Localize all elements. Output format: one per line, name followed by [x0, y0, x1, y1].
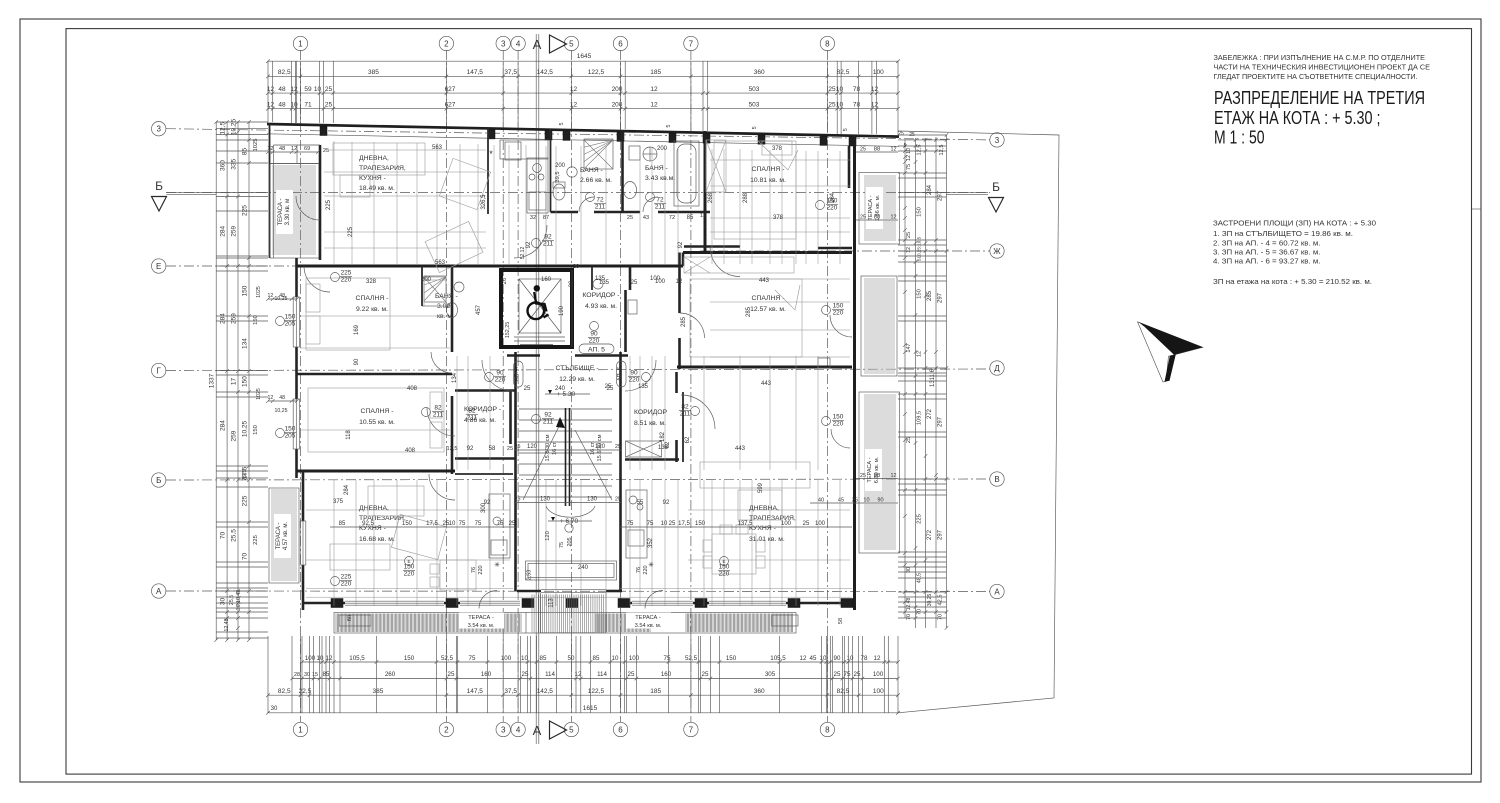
svg-text:185: 185 [650, 688, 661, 695]
svg-text:150: 150 [402, 521, 413, 527]
lower living top wall left apt [455, 473, 513, 475]
door arc apt5 entry [514, 225, 547, 258]
bath 3.02 walls [421, 266, 423, 306]
svg-text:134: 134 [452, 372, 458, 383]
furniture wardrobe top-right [706, 140, 726, 192]
svg-text:12: 12 [917, 351, 923, 357]
svg-text:5: 5 [752, 126, 758, 129]
svg-text:10: 10 [612, 655, 619, 662]
svg-text:25: 25 [906, 232, 912, 238]
bath right wall / bedroom left wall top [704, 131, 707, 253]
bedroom 12.57 right pier [818, 358, 830, 368]
svg-text:12,48: 12,48 [906, 598, 912, 611]
svg-text:92: 92 [663, 500, 670, 506]
svg-text:12: 12 [891, 215, 897, 221]
svg-text:10,25: 10,25 [275, 408, 288, 414]
bottom terrace hatch left [336, 614, 521, 633]
svg-text:378: 378 [773, 215, 784, 221]
svg-text:100: 100 [873, 69, 884, 76]
svg-text:ТЕРАСА -: ТЕРАСА - [468, 615, 494, 621]
svg-text:268: 268 [708, 192, 714, 203]
svg-text:220: 220 [341, 277, 352, 284]
bottom dim row 2 [292, 678, 898, 680]
svg-text:220: 220 [827, 205, 838, 212]
lower living left wall [302, 471, 305, 521]
svg-text:25: 25 [828, 86, 836, 93]
terrace 2 label [274, 514, 291, 558]
left dim col 3 [237, 122, 239, 640]
svg-text:30,25: 30,25 [927, 594, 933, 607]
svg-text:259: 259 [231, 225, 238, 236]
right outer wall [853, 135, 856, 610]
baths bottom wall [551, 211, 579, 214]
thin floor edge lines above bottom wall [306, 596, 852, 598]
svg-text:4: 4 [516, 39, 521, 48]
svg-text:71: 71 [304, 102, 312, 109]
svg-text:220: 220 [478, 565, 484, 574]
svg-text:30: 30 [220, 598, 227, 606]
top-right bedroom inner wall [848, 146, 851, 188]
svg-text:90: 90 [590, 331, 598, 338]
svg-text:25: 25 [448, 671, 455, 678]
svg-text:100: 100 [873, 688, 884, 695]
window bedroom 2 [293, 399, 299, 449]
svg-text:88: 88 [874, 473, 880, 479]
svg-text:25: 25 [631, 280, 638, 286]
furniture lower-left living set [368, 486, 424, 516]
svg-text:A: A [533, 37, 542, 52]
svg-text:142,5: 142,5 [537, 688, 554, 695]
svg-text:40: 40 [818, 498, 824, 504]
svg-text:28: 28 [294, 672, 300, 678]
svg-text:150: 150 [827, 198, 838, 205]
left wall niche upper [274, 144, 321, 146]
terrace planter boxes [339, 615, 371, 626]
svg-text:75: 75 [844, 671, 851, 678]
bottom wall windows [345, 600, 444, 606]
svg-text:25: 25 [898, 131, 904, 137]
axis B section line top [166, 192, 990, 194]
svg-text:190: 190 [559, 305, 565, 316]
svg-text:6.00 кв. м.: 6.00 кв. м. [874, 456, 880, 483]
svg-text:А: А [156, 587, 162, 596]
svg-text:150: 150 [404, 655, 415, 662]
top dim row 2 [268, 92, 898, 94]
terrace 1 label [276, 190, 293, 234]
svg-text:130: 130 [540, 497, 551, 503]
svg-text:100: 100 [655, 279, 666, 285]
svg-text:2.66 кв. м.: 2.66 кв. м. [580, 177, 612, 184]
bedroom2 bottom wall [296, 470, 455, 473]
svg-text:3.54 кв. м.: 3.54 кв. м. [468, 623, 495, 629]
svg-text:ТЕРАСА -: ТЕРАСА - [278, 198, 284, 225]
svg-text:150: 150 [242, 376, 249, 387]
svg-text:220: 220 [629, 377, 640, 384]
svg-text:220: 220 [719, 571, 730, 578]
top outer wall slanted - outer face [267, 124, 899, 137]
svg-text:12: 12 [874, 655, 881, 662]
svg-text:160: 160 [541, 277, 552, 283]
svg-text:205: 205 [285, 321, 296, 328]
svg-text:150: 150 [719, 564, 730, 571]
svg-text:10,25: 10,25 [275, 296, 288, 302]
svg-text:4. ЗП на АП. - 6 = 93.27 кв. м: 4. ЗП на АП. - 6 = 93.27 кв. м. [1213, 257, 1321, 266]
svg-text:305: 305 [765, 671, 776, 678]
svg-text:*: * [489, 149, 493, 159]
svg-text:75: 75 [559, 542, 565, 548]
svg-text:284: 284 [220, 225, 227, 236]
svg-text:48: 48 [279, 395, 285, 401]
door arc lower living entry [429, 474, 455, 500]
svg-text:12: 12 [291, 146, 297, 152]
svg-text:25: 25 [522, 671, 529, 678]
svg-text:1025: 1025 [253, 139, 259, 152]
svg-text:5: 5 [559, 122, 565, 125]
svg-text:75: 75 [459, 521, 466, 527]
svg-text:17,5: 17,5 [426, 521, 438, 527]
svg-text:211: 211 [543, 419, 554, 426]
corridor 4.93 walls [571, 270, 573, 347]
svg-text:37,5: 37,5 [504, 69, 517, 76]
svg-text:408: 408 [405, 448, 416, 454]
svg-text:Г: Г [157, 366, 162, 375]
svg-text:92: 92 [526, 241, 532, 248]
bottom terrace band rail [334, 613, 796, 634]
north arrow [1138, 322, 1203, 382]
bottom wall piers [331, 599, 343, 608]
svg-text:✳: ✳ [648, 561, 654, 569]
svg-text:59: 59 [304, 86, 312, 93]
svg-text:443: 443 [759, 278, 770, 284]
furniture chairs lower-left kitchen [430, 560, 476, 590]
svg-text:25: 25 [854, 671, 861, 678]
svg-text:25,5: 25,5 [229, 595, 235, 605]
svg-text:16 ст.: 16 ст. [552, 441, 558, 456]
ap6 stadium label [617, 361, 627, 387]
svg-text:118: 118 [346, 430, 352, 440]
door arc terrace left top [296, 196, 320, 220]
svg-text:6: 6 [618, 39, 623, 48]
site boundary line [898, 131, 1059, 713]
svg-text:272: 272 [927, 529, 933, 540]
svg-text:31.01 кв. м.: 31.01 кв. м. [749, 536, 785, 543]
svg-text:12,5: 12,5 [447, 446, 458, 452]
svg-text:ЧАСТИ НА ТЕХНИЧЕСКИЯ ИНВЕСТИЦИ: ЧАСТИ НА ТЕХНИЧЕСКИЯ ИНВЕСТИЦИОНЕН ПРОЕК… [1214, 63, 1431, 72]
furniture bed 12.57 [690, 279, 802, 357]
svg-text:150: 150 [833, 303, 844, 310]
svg-text:25: 25 [325, 102, 333, 109]
stair bottom winder arc [546, 506, 595, 517]
svg-text:72: 72 [656, 197, 664, 204]
door arc bedroom 12.57 [680, 313, 705, 338]
svg-text:82,5: 82,5 [837, 688, 850, 695]
axis A double line [535, 34, 537, 744]
svg-text:37,5: 37,5 [504, 688, 517, 695]
bedroom 10.81 bottom wall [684, 245, 740, 248]
stairwell right wall [619, 352, 622, 591]
svg-text:Е: Е [407, 559, 410, 564]
kitchen left lower apartment [489, 494, 510, 558]
svg-text:СПАЛНЯ -: СПАЛНЯ - [361, 408, 394, 415]
stairwell left wall [514, 352, 517, 591]
svg-text:114: 114 [597, 671, 607, 678]
kitchen wall top apartment [487, 127, 489, 214]
svg-text:25: 25 [524, 386, 531, 392]
svg-text:25,5: 25,5 [231, 529, 238, 542]
svg-text:78: 78 [853, 86, 861, 93]
svg-text:75: 75 [469, 655, 476, 662]
svg-text:211: 211 [680, 411, 691, 418]
svg-text:25: 25 [323, 148, 329, 154]
svg-text:109,5: 109,5 [917, 411, 923, 425]
svg-text:297: 297 [938, 190, 944, 201]
svg-text:284: 284 [220, 313, 227, 324]
svg-text:284: 284 [220, 420, 227, 431]
svg-text:25: 25 [860, 215, 866, 221]
door arc bottom entrance left [479, 591, 497, 609]
svg-text:225: 225 [242, 495, 249, 506]
svg-text:285: 285 [927, 290, 933, 301]
svg-text:2,53: 2,53 [527, 570, 533, 581]
bottom terrace hatch right [686, 614, 793, 633]
svg-text:211: 211 [595, 204, 606, 211]
right dim col ticks [903, 133, 948, 630]
svg-text:20: 20 [573, 264, 579, 270]
svg-text:87: 87 [543, 215, 549, 221]
stair second diagonal [575, 430, 612, 500]
svg-text:12,5: 12,5 [220, 122, 227, 135]
svg-text:3.43 кв.м.: 3.43 кв.м. [645, 175, 675, 182]
in-plan vertical extension lines lower [334, 480, 840, 606]
stairwell top wall [507, 354, 540, 357]
door arc bottom entrance right [645, 591, 663, 609]
door arc corridor 486 bedroom [427, 408, 455, 436]
svg-text:12.57 кв. м.: 12.57 кв. м. [750, 306, 786, 313]
svg-text:ТЕРАСА -: ТЕРАСА - [635, 615, 661, 621]
svg-text:297: 297 [938, 529, 944, 540]
svg-text:17: 17 [231, 378, 238, 386]
svg-text:12: 12 [267, 395, 273, 401]
svg-text:ЗП на етажа на кота : + 5.30 =: ЗП на етажа на кота : + 5.30 = 210.52 кв… [1213, 277, 1372, 286]
svg-text:150: 150 [833, 414, 844, 421]
svg-text:225: 225 [326, 199, 332, 210]
svg-text:25: 25 [507, 446, 513, 452]
svg-text:10: 10 [847, 655, 854, 662]
svg-text:147,5: 147,5 [467, 69, 484, 76]
furniture dining bottom-right [703, 525, 765, 574]
svg-text:1337: 1337 [209, 373, 216, 388]
top wall piers [320, 126, 327, 135]
frac circles small [331, 273, 340, 282]
svg-text:3. ЗП на АП. - 5 = 36.67 кв. м: 3. ЗП на АП. - 5 = 36.67 кв. м. [1213, 248, 1321, 257]
svg-text:113: 113 [549, 598, 555, 608]
svg-text:10: 10 [317, 655, 324, 662]
right terrace lower frame [859, 392, 900, 553]
svg-text:240: 240 [578, 565, 589, 571]
top dim row 3 [268, 108, 898, 110]
svg-text:АП.-6: АП.-6 [617, 367, 623, 381]
svg-text:АП. 5: АП. 5 [588, 346, 605, 353]
svg-text:25: 25 [906, 437, 912, 443]
right extension lines [898, 135, 947, 618]
svg-text:Б: Б [155, 179, 163, 193]
entrance steps [525, 613, 527, 634]
door arc ap4 entry [482, 360, 513, 391]
top kitchen appliance [505, 142, 521, 160]
vertical axis lines 1-8 dashed [300, 50, 302, 722]
svg-text:БАНЯ -: БАНЯ - [645, 165, 668, 172]
svg-text:3.54 кв. м.: 3.54 кв. м. [635, 623, 662, 629]
door arc terrace bedroom 12.57 [830, 315, 852, 337]
svg-text:335: 335 [231, 158, 238, 169]
svg-text:200: 200 [421, 277, 432, 283]
svg-text:Б: Б [992, 180, 1000, 194]
svg-text:297: 297 [938, 416, 944, 427]
svg-text:137,5: 137,5 [737, 521, 753, 527]
svg-text:+ 6.70: + 6.70 [560, 518, 579, 525]
svg-text:4.93 кв. м.: 4.93 кв. м. [585, 303, 617, 310]
svg-text:72: 72 [596, 197, 604, 204]
svg-text:ЗАСТРОЕНИ ПЛОЩИ (ЗП) НА КОТА :: ЗАСТРОЕНИ ПЛОЩИ (ЗП) НА КОТА : + 5.30 [1213, 219, 1376, 228]
svg-text:152,25: 152,25 [505, 322, 511, 339]
svg-text:СПАЛНЯ -: СПАЛНЯ - [356, 295, 389, 302]
svg-text:25: 25 [627, 215, 633, 221]
right dim col lines [904, 140, 906, 618]
door arc bath 2.66 [579, 197, 594, 212]
svg-text:16.68 кв. м.: 16.68 кв. м. [359, 536, 395, 543]
svg-text:211: 211 [467, 415, 478, 422]
svg-text:45: 45 [810, 655, 817, 662]
svg-text:12: 12 [891, 473, 897, 479]
right terrace 1.36 label [866, 187, 883, 229]
bath 3.02 shower lower [424, 276, 446, 302]
svg-text:82: 82 [681, 404, 689, 411]
svg-text:3: 3 [156, 125, 161, 134]
svg-text:48: 48 [278, 86, 286, 93]
svg-text:1025: 1025 [256, 388, 262, 400]
svg-text:Б: Б [156, 476, 161, 485]
svg-text:150: 150 [917, 207, 923, 217]
furniture wardrobe 12.57 [684, 257, 794, 273]
svg-text:ЕТАЖ НА КОТА : + 5.30 ;: ЕТАЖ НА КОТА : + 5.30 ; [1214, 108, 1381, 128]
left outer wall upper [269, 124, 271, 258]
svg-text:352: 352 [648, 537, 654, 548]
svg-text:1: 1 [298, 39, 303, 48]
svg-text:9.22 кв. м.: 9.22 кв. м. [356, 306, 388, 313]
svg-text:1. ЗП на СТЪЛБИЩЕТО = 19.86 кв: 1. ЗП на СТЪЛБИЩЕТО = 19.86 кв. м. [1213, 229, 1353, 238]
svg-text:100: 100 [781, 521, 792, 527]
svg-text:8: 8 [825, 725, 830, 734]
svg-text:443: 443 [761, 381, 772, 387]
right terrace upper frame [859, 173, 900, 245]
svg-text:328: 328 [366, 279, 377, 285]
svg-text:211: 211 [543, 241, 554, 248]
top kitchen counters [500, 140, 548, 159]
horizontal axis line 3 slanted dashed [166, 129, 990, 140]
svg-text:82: 82 [468, 408, 476, 415]
bath divider wall [621, 130, 624, 212]
svg-text:Е: Е [156, 262, 161, 271]
bottom dim row 3 [268, 694, 898, 696]
svg-text:ТЕРАСА -: ТЕРАСА - [276, 522, 282, 549]
svg-text:4.57 кв. м.: 4.57 кв. м. [283, 522, 289, 551]
svg-text:100: 100 [629, 655, 640, 662]
svg-text:120: 120 [595, 444, 606, 450]
right terrace mid frame [861, 276, 897, 376]
svg-text:225: 225 [917, 514, 923, 524]
bathtub [674, 141, 699, 206]
bottom extension lines [268, 636, 898, 713]
svg-text:12: 12 [267, 293, 273, 299]
svg-text:259: 259 [231, 313, 238, 324]
svg-text:СПАЛНЯ -: СПАЛНЯ - [752, 166, 785, 173]
svg-text:25: 25 [615, 444, 621, 450]
svg-text:200: 200 [612, 86, 623, 93]
svg-text:240: 240 [555, 386, 566, 392]
left dim col outer 1337 [215, 122, 217, 640]
svg-text:75: 75 [627, 521, 634, 527]
svg-text:8: 8 [825, 39, 830, 48]
svg-text:599: 599 [758, 482, 764, 493]
vestibule front wall [517, 590, 541, 593]
in-plan vertical extension lines upper [334, 141, 840, 264]
grid bubbles top 1-8 [293, 36, 307, 50]
svg-text:90: 90 [834, 655, 841, 662]
svg-text:150: 150 [285, 426, 296, 433]
svg-text:90: 90 [630, 370, 638, 377]
svg-text:285: 285 [681, 316, 687, 327]
bath 3.43 fixtures [643, 147, 657, 161]
svg-text:3.02: 3.02 [437, 303, 450, 310]
svg-text:272: 272 [927, 408, 933, 419]
svg-text:457: 457 [476, 304, 482, 315]
right axis letters [990, 133, 1004, 147]
left extension lines [216, 122, 268, 638]
svg-text:32: 32 [530, 215, 536, 221]
svg-text:211: 211 [655, 204, 666, 211]
svg-text:2. ЗП на АП. - 4 = 60.72 кв. м: 2. ЗП на АП. - 4 = 60.72 кв. м. [1213, 239, 1321, 248]
svg-text:15.6/30 см: 15.6/30 см [545, 434, 551, 461]
svg-text:69: 69 [304, 146, 310, 152]
svg-text:КУХНЯ -: КУХНЯ - [359, 175, 386, 182]
svg-text:БАНЯ -: БАНЯ - [580, 167, 603, 174]
axis B-V dashed [166, 479, 990, 480]
svg-text:92: 92 [678, 241, 684, 248]
bath 2.66 shower [584, 139, 613, 169]
svg-text:134: 134 [242, 338, 249, 349]
svg-text:85: 85 [540, 655, 547, 662]
svg-text:25: 25 [615, 497, 621, 503]
svg-text:12: 12 [570, 102, 578, 109]
svg-text:70: 70 [242, 553, 249, 561]
svg-text:100: 100 [873, 671, 884, 678]
svg-text:85: 85 [593, 655, 600, 662]
svg-text:205: 205 [567, 537, 573, 546]
svg-text:10: 10 [314, 86, 322, 93]
svg-text:58: 58 [838, 618, 844, 624]
bottom dim row 1 [302, 661, 898, 663]
svg-text:169: 169 [354, 324, 360, 335]
svg-text:КОРИДОР: КОРИДОР [634, 409, 667, 416]
svg-text:75: 75 [475, 521, 482, 527]
svg-text:ЗАБЕЛЕЖКА : ПРИ ИЗПЪЛНЕНИЕ НА: ЗАБЕЛЕЖКА : ПРИ ИЗПЪЛНЕНИЕ НА С.М.Р. ПО … [1214, 53, 1426, 62]
svg-text:20: 20 [502, 277, 508, 284]
svg-text:АП.-4: АП.-4 [514, 367, 520, 381]
svg-text:12,48: 12,48 [224, 618, 230, 631]
terrace 1 top rail [270, 163, 318, 165]
svg-text:220: 220 [589, 338, 600, 345]
svg-text:12: 12 [650, 102, 658, 109]
